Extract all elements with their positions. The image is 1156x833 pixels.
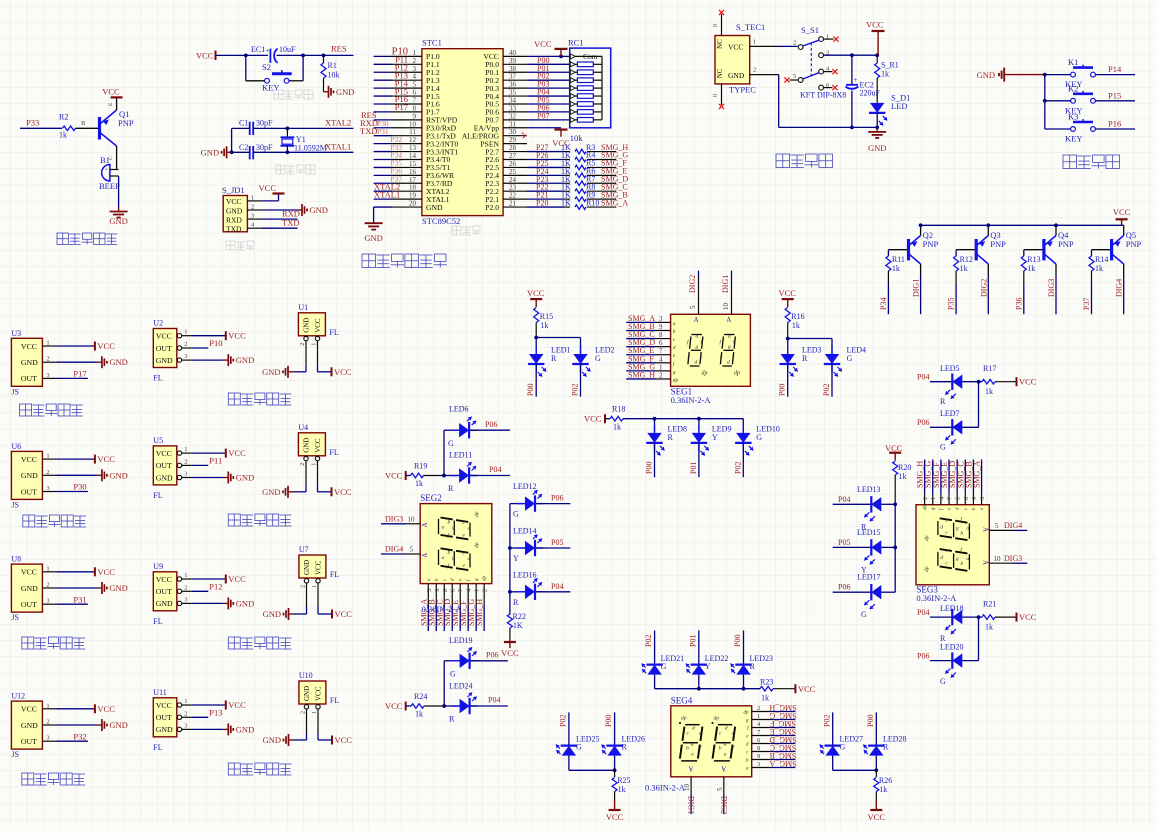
transistor Q2 (907, 239, 910, 260)
svg-text:20: 20 (409, 200, 417, 208)
svg-text:1k: 1k (892, 264, 900, 273)
svg-text:g: g (728, 344, 731, 350)
wire LED27-28 rail (833, 769, 877, 771)
resistor R19 (411, 473, 424, 478)
svg-text:P05: P05 (838, 538, 850, 547)
svg-text:0: 0 (713, 94, 719, 97)
wire LED28 P00 (875, 712, 877, 745)
svg-text:d: d (468, 525, 471, 531)
svg-text:GND: GND (336, 87, 354, 97)
svg-text:LED14: LED14 (513, 527, 537, 536)
wire U5 pin3 GND (191, 477, 223, 479)
svg-text:2: 2 (413, 57, 417, 65)
svg-text:R17: R17 (983, 364, 996, 373)
wire LED17 junction (881, 591, 895, 593)
pins S_JD1 (247, 200, 262, 202)
svg-text:R20: R20 (898, 463, 911, 472)
svg-text:2: 2 (482, 589, 489, 592)
svg-text:LED7: LED7 (940, 409, 960, 418)
svg-text:30: 30 (509, 128, 517, 136)
wire U12 pin1 VCC (56, 708, 95, 710)
svg-text:2: 2 (46, 582, 49, 589)
svg-text:TYPEC: TYPEC (729, 85, 756, 95)
svg-text:9: 9 (434, 589, 441, 592)
svg-text:dp: dp (474, 511, 480, 517)
wire Q1 emitter to VCC (116, 97, 118, 110)
svg-text:R11: R11 (892, 255, 905, 264)
svg-text:P02: P02 (644, 635, 653, 647)
svg-text:SMG_H: SMG_H (769, 703, 796, 712)
wire R2 to Q1 base (76, 127, 99, 129)
svg-text:GND: GND (262, 367, 280, 377)
resistor R20 (893, 461, 898, 475)
svg-text:GND: GND (156, 473, 173, 482)
title IR pair 7 (228, 637, 240, 649)
svg-text:2: 2 (184, 584, 187, 591)
svg-text:KFT DIP-8X8: KFT DIP-8X8 (800, 90, 846, 99)
power VCC U10 (331, 736, 333, 745)
svg-text:VCC: VCC (606, 812, 624, 822)
svg-text:b: b (733, 340, 736, 346)
pins SEG2 bottom (427, 584, 429, 605)
power VCC R23 (794, 684, 796, 693)
svg-text:33: 33 (509, 104, 517, 112)
svg-text:A: A (688, 765, 693, 773)
svg-text:P06: P06 (917, 418, 929, 427)
svg-text:1: 1 (46, 340, 49, 347)
wire LED21 P02 (654, 631, 656, 665)
svg-text:7: 7 (413, 96, 417, 104)
svg-text:LED5: LED5 (940, 364, 960, 373)
pins SEG1 left (626, 321, 656, 323)
pins U12 (42, 708, 56, 710)
key K2 (1071, 98, 1076, 103)
svg-text:R: R (622, 743, 628, 752)
wire S2 left leg (246, 80, 265, 82)
svg-text:31: 31 (509, 120, 517, 128)
svg-text:9: 9 (971, 497, 978, 500)
resistor R25 (614, 770, 616, 777)
power VCC EA (555, 128, 568, 130)
title IR pair 4 (22, 773, 34, 785)
svg-text:19: 19 (409, 192, 417, 200)
power VCC R21 (1016, 613, 1018, 622)
svg-text:GND: GND (302, 318, 310, 333)
svg-text:8: 8 (659, 331, 663, 339)
pins U6 (42, 458, 56, 460)
pins SEG1 top DIG2 (698, 277, 700, 315)
svg-text:1: 1 (184, 698, 187, 705)
wire Q4 emitter (1055, 225, 1057, 235)
svg-text:d: d (468, 556, 471, 562)
svg-text:GND: GND (303, 686, 311, 701)
svg-text:FL: FL (153, 491, 162, 500)
wire EC1 to RES (277, 54, 354, 56)
svg-text:R: R (448, 484, 454, 493)
svg-text:JS: JS (11, 613, 19, 622)
svg-text:OUT: OUT (156, 461, 172, 470)
svg-text:RXD: RXD (226, 215, 242, 224)
svg-text:1: 1 (757, 713, 760, 720)
svg-text:1: 1 (184, 446, 187, 453)
resistor R26 (875, 770, 877, 777)
svg-text:VCC: VCC (196, 50, 214, 60)
wire U2 pin1 VCC (191, 335, 226, 337)
display SEG1 body (671, 314, 751, 386)
svg-text:R16: R16 (791, 312, 804, 321)
svg-text:JS: JS (11, 500, 19, 509)
svg-text:28: 28 (509, 144, 517, 152)
pins SEG3 top (924, 493, 926, 504)
svg-text:R1: R1 (328, 61, 337, 70)
svg-text:27: 27 (509, 152, 517, 160)
wire LED9 P01 (698, 443, 700, 477)
svg-text:A: A (726, 316, 731, 324)
svg-text:BEEP: BEEP (99, 181, 120, 191)
svg-text:VCC: VCC (334, 487, 352, 497)
svg-text:R10: R10 (586, 198, 599, 207)
wire U5 pin1 VCC (191, 452, 226, 454)
svg-text:XTAL1: XTAL1 (325, 142, 351, 152)
svg-text:3: 3 (46, 485, 49, 492)
svg-text:R: R (668, 433, 674, 442)
svg-text:VCC: VCC (156, 701, 172, 710)
power VCC U6 (94, 455, 96, 464)
svg-text:Y: Y (705, 662, 711, 671)
svg-text:SMG_F: SMG_F (770, 719, 796, 728)
wire LED16 P04 (536, 591, 570, 593)
svg-text:g: g (956, 556, 959, 562)
svg-text:5: 5 (995, 522, 999, 530)
svg-text:a: a (673, 321, 676, 327)
svg-text:P04: P04 (917, 608, 929, 617)
svg-text:OUT: OUT (21, 600, 37, 609)
svg-text:b: b (701, 340, 704, 346)
wire LED15 junction (881, 546, 895, 548)
svg-text:R: R (449, 715, 455, 724)
svg-text:1: 1 (184, 329, 187, 336)
svg-text:6: 6 (413, 89, 417, 97)
svg-text:XTAL1: XTAL1 (374, 189, 400, 199)
svg-text:a: a (966, 525, 969, 531)
svg-text:37: 37 (509, 73, 517, 81)
svg-text:SEG4: SEG4 (671, 696, 693, 706)
wire LED19-LED24 junction (442, 704, 446, 708)
svg-text:R23: R23 (760, 678, 773, 687)
svg-text:FL: FL (330, 696, 339, 705)
svg-text:U10: U10 (299, 671, 313, 680)
svg-text:VCC: VCC (868, 812, 886, 822)
resistor R13 (1021, 256, 1026, 271)
svg-text:B: B (81, 120, 86, 127)
svg-text:1: 1 (659, 363, 663, 371)
wire Q3 emitter (987, 225, 989, 235)
svg-text:DIG3: DIG3 (1004, 554, 1022, 563)
svg-text:G: G (756, 433, 762, 442)
svg-text:2: 2 (184, 710, 187, 717)
svg-text:2: 2 (753, 67, 756, 74)
svg-text:3: 3 (413, 65, 417, 73)
svg-text:d: d (727, 360, 730, 366)
resistor R22 (507, 614, 512, 628)
svg-text:GND: GND (868, 143, 886, 153)
wire U10 VCC pin (317, 709, 319, 733)
svg-text:1k: 1k (881, 70, 889, 79)
svg-text:P04: P04 (488, 696, 500, 705)
svg-text:2: 2 (184, 341, 187, 348)
svg-text:P04: P04 (489, 465, 501, 474)
svg-text:KEY: KEY (1065, 134, 1082, 144)
pins U2 (177, 334, 181, 338)
led LED1 (529, 354, 543, 364)
svg-text:R26: R26 (879, 776, 892, 785)
svg-text:P00: P00 (733, 635, 742, 647)
svg-text:R13: R13 (1027, 255, 1040, 264)
note crystal gray (276, 165, 285, 174)
wire EA pin31 to VCC (527, 127, 561, 129)
svg-text:dp: dp (702, 371, 708, 377)
svg-text:A: A (421, 553, 429, 558)
power VCC U7 (331, 610, 333, 619)
svg-text:10k: 10k (328, 71, 340, 80)
svg-text:2: 2 (301, 711, 307, 714)
svg-text:VCC: VCC (527, 288, 545, 298)
svg-text:Com: Com (583, 52, 598, 61)
svg-text:P34: P34 (879, 298, 888, 310)
wire LED11 P04 (470, 475, 510, 477)
svg-text:VCC: VCC (385, 470, 403, 480)
wire LED4 P02 (831, 364, 833, 397)
wire U7 GND pin (306, 583, 308, 607)
svg-text:d: d (673, 345, 676, 351)
svg-text:U8: U8 (11, 555, 21, 564)
title IR pair 1 (20, 404, 32, 416)
digit SEG1 right (720, 335, 735, 367)
wire U3 pin3 P17 (56, 377, 88, 379)
capacitor EC2 (851, 55, 853, 85)
wire LED1 P00 (535, 364, 537, 397)
svg-text:FL: FL (153, 374, 162, 383)
mcu left pins (392, 55, 422, 57)
wire U6 pin1 VCC (56, 458, 95, 460)
svg-text:24: 24 (509, 176, 517, 184)
wire U1 VCC pin (317, 341, 319, 365)
svg-text:5: 5 (793, 73, 796, 80)
svg-text:8: 8 (757, 745, 760, 752)
wire Q5 collector DIG4 (1123, 264, 1125, 275)
svg-text:U4: U4 (298, 423, 308, 432)
svg-text:P00: P00 (778, 384, 787, 396)
svg-text:b: b (686, 746, 689, 752)
svg-text:9: 9 (757, 753, 760, 760)
svg-text:NC: NC (716, 68, 724, 78)
svg-text:2: 2 (757, 705, 760, 712)
led LED8 (654, 419, 656, 433)
svg-text:PNP: PNP (118, 118, 134, 128)
RC1 com pin and bus (570, 54, 575, 59)
wire U9 pin2 P12 (191, 590, 208, 592)
svg-text:10: 10 (722, 303, 730, 311)
svg-text:10uF: 10uF (279, 45, 296, 54)
key bus vertical (1044, 75, 1046, 129)
svg-text:DIG1: DIG1 (912, 279, 921, 297)
wire LED14 P05 (536, 547, 570, 549)
svg-text:P04: P04 (917, 373, 929, 382)
svg-text:GND: GND (21, 721, 38, 730)
RC1 resistors (570, 62, 575, 67)
svg-text:34: 34 (509, 96, 517, 104)
svg-text:G: G (448, 439, 454, 448)
svg-text:SMG_A: SMG_A (769, 759, 796, 768)
svg-text:VCC: VCC (314, 560, 322, 575)
svg-text:1k: 1k (540, 321, 548, 330)
svg-text:8: 8 (442, 589, 449, 592)
wire Q2 emitter (920, 225, 922, 235)
svg-text:GND: GND (303, 560, 311, 575)
svg-text:TXD: TXD (226, 225, 242, 234)
svg-text:dp: dp (483, 576, 488, 582)
transistor Q1 (98, 117, 101, 140)
wire U10 GND pin (306, 709, 308, 733)
svg-text:P11: P11 (209, 456, 222, 466)
wire LED27 P02 (832, 712, 834, 745)
svg-text:S_JD1: S_JD1 (222, 185, 245, 195)
note download port gray (226, 241, 235, 250)
wire C1 left (232, 127, 250, 129)
pins U5 (177, 451, 181, 455)
ground U9 (223, 602, 228, 604)
power VCC R17 (1016, 377, 1018, 386)
svg-text:1k: 1k (985, 387, 993, 396)
svg-text:DIG2: DIG2 (719, 796, 728, 814)
svg-text:LED6: LED6 (449, 405, 469, 414)
resistors R3-R10 rows (527, 151, 564, 153)
svg-text:a: a (442, 555, 445, 561)
svg-text:1k: 1k (1027, 264, 1035, 273)
led LED28 (868, 744, 884, 746)
svg-text:dp: dp (681, 716, 687, 722)
svg-text:32: 32 (509, 112, 517, 120)
svg-text:3: 3 (184, 471, 187, 478)
power VCC U5 (225, 449, 227, 458)
wire LED22 P01 (698, 631, 700, 665)
svg-text:U3: U3 (11, 329, 21, 338)
svg-text:1k: 1k (899, 472, 907, 481)
svg-text:VCC: VCC (228, 574, 246, 584)
svg-text:1k: 1k (613, 423, 621, 432)
svg-text:d: d (692, 726, 695, 732)
ground U2 (223, 359, 228, 361)
svg-text:XTAL2: XTAL2 (325, 118, 351, 128)
led LED4 (825, 354, 839, 364)
svg-text:K1: K1 (1068, 57, 1078, 67)
svg-text:P00: P00 (645, 462, 654, 474)
power VCC R26 (875, 801, 877, 811)
svg-text:G: G (847, 354, 853, 363)
power VCC R22 (504, 641, 516, 643)
wire pin2 to GND (262, 209, 297, 211)
svg-text:5: 5 (413, 81, 417, 89)
svg-text:G: G (940, 677, 946, 686)
svg-text:1: 1 (413, 49, 417, 57)
svg-text:R: R (940, 397, 946, 406)
svg-text:G: G (661, 662, 667, 671)
svg-text:U5: U5 (153, 436, 163, 445)
svg-text:3: 3 (757, 761, 760, 768)
svg-text:GND: GND (156, 599, 173, 608)
svg-text:OUT: OUT (21, 737, 37, 746)
pins U11 (177, 703, 181, 707)
mcu pin names (426, 52, 500, 212)
svg-text:SMG_D: SMG_D (769, 735, 796, 744)
wire LED6 P06 (470, 429, 510, 431)
svg-text:14: 14 (409, 152, 417, 160)
svg-text:G: G (595, 354, 601, 363)
no-ERC marker pin30 (522, 133, 526, 139)
svg-text:g: g (724, 741, 727, 747)
svg-text:21: 21 (509, 200, 517, 208)
svg-text:SMG_A: SMG_A (973, 461, 982, 488)
svg-text:FL: FL (330, 570, 339, 579)
svg-text:11: 11 (409, 128, 416, 136)
svg-text:P02: P02 (822, 384, 831, 396)
wire TYPEC pin2 GND rail (750, 74, 779, 76)
led LED9 (698, 419, 700, 433)
svg-text:GND: GND (109, 470, 127, 480)
svg-text:GND: GND (236, 724, 254, 734)
wire LED3 P00 (787, 364, 789, 397)
svg-text:1k: 1k (415, 479, 423, 488)
svg-text:P30: P30 (73, 482, 86, 492)
power VCC U2 (225, 331, 227, 340)
power VCC R25 (614, 801, 616, 811)
ground R1 (324, 91, 329, 93)
ground U8 (97, 587, 102, 589)
svg-text:10: 10 (408, 515, 416, 523)
svg-text:1k: 1k (618, 785, 626, 794)
svg-text:U12: U12 (11, 692, 25, 701)
svg-text:DIG2: DIG2 (688, 275, 697, 293)
svg-text:1k: 1k (59, 131, 67, 140)
svg-text:VCC: VCC (97, 704, 115, 714)
title IR pair 2 (23, 515, 35, 527)
ground U12 (97, 724, 102, 726)
svg-text:PNP: PNP (1058, 239, 1074, 249)
pins U10 (304, 705, 308, 709)
svg-text:C1: C1 (239, 119, 248, 128)
crystal Y1 (286, 128, 288, 137)
wire LED25 P02 (568, 712, 570, 745)
title key circuit (1063, 155, 1077, 169)
svg-text:0.36IN-2-A: 0.36IN-2-A (671, 395, 712, 405)
svg-text:0.36IN-2-A: 0.36IN-2-A (645, 783, 686, 793)
svg-text:5: 5 (410, 546, 414, 554)
svg-text:DIG4: DIG4 (1004, 521, 1022, 530)
wire pin1 to VCC (262, 200, 279, 202)
svg-text:FL: FL (153, 743, 162, 752)
svg-text:VCC: VCC (335, 609, 353, 619)
svg-text:R19: R19 (414, 462, 427, 471)
svg-text:LED12: LED12 (513, 482, 537, 491)
svg-text:S2: S2 (262, 62, 271, 72)
svg-text:VCC: VCC (1019, 612, 1037, 622)
svg-text:1k: 1k (1095, 264, 1103, 273)
svg-text:GND: GND (109, 216, 127, 226)
digit SEG2 lower (439, 548, 471, 570)
svg-text:g: g (673, 369, 676, 375)
svg-text:P36: P36 (1014, 298, 1023, 310)
svg-text:DIG3: DIG3 (1047, 279, 1056, 297)
